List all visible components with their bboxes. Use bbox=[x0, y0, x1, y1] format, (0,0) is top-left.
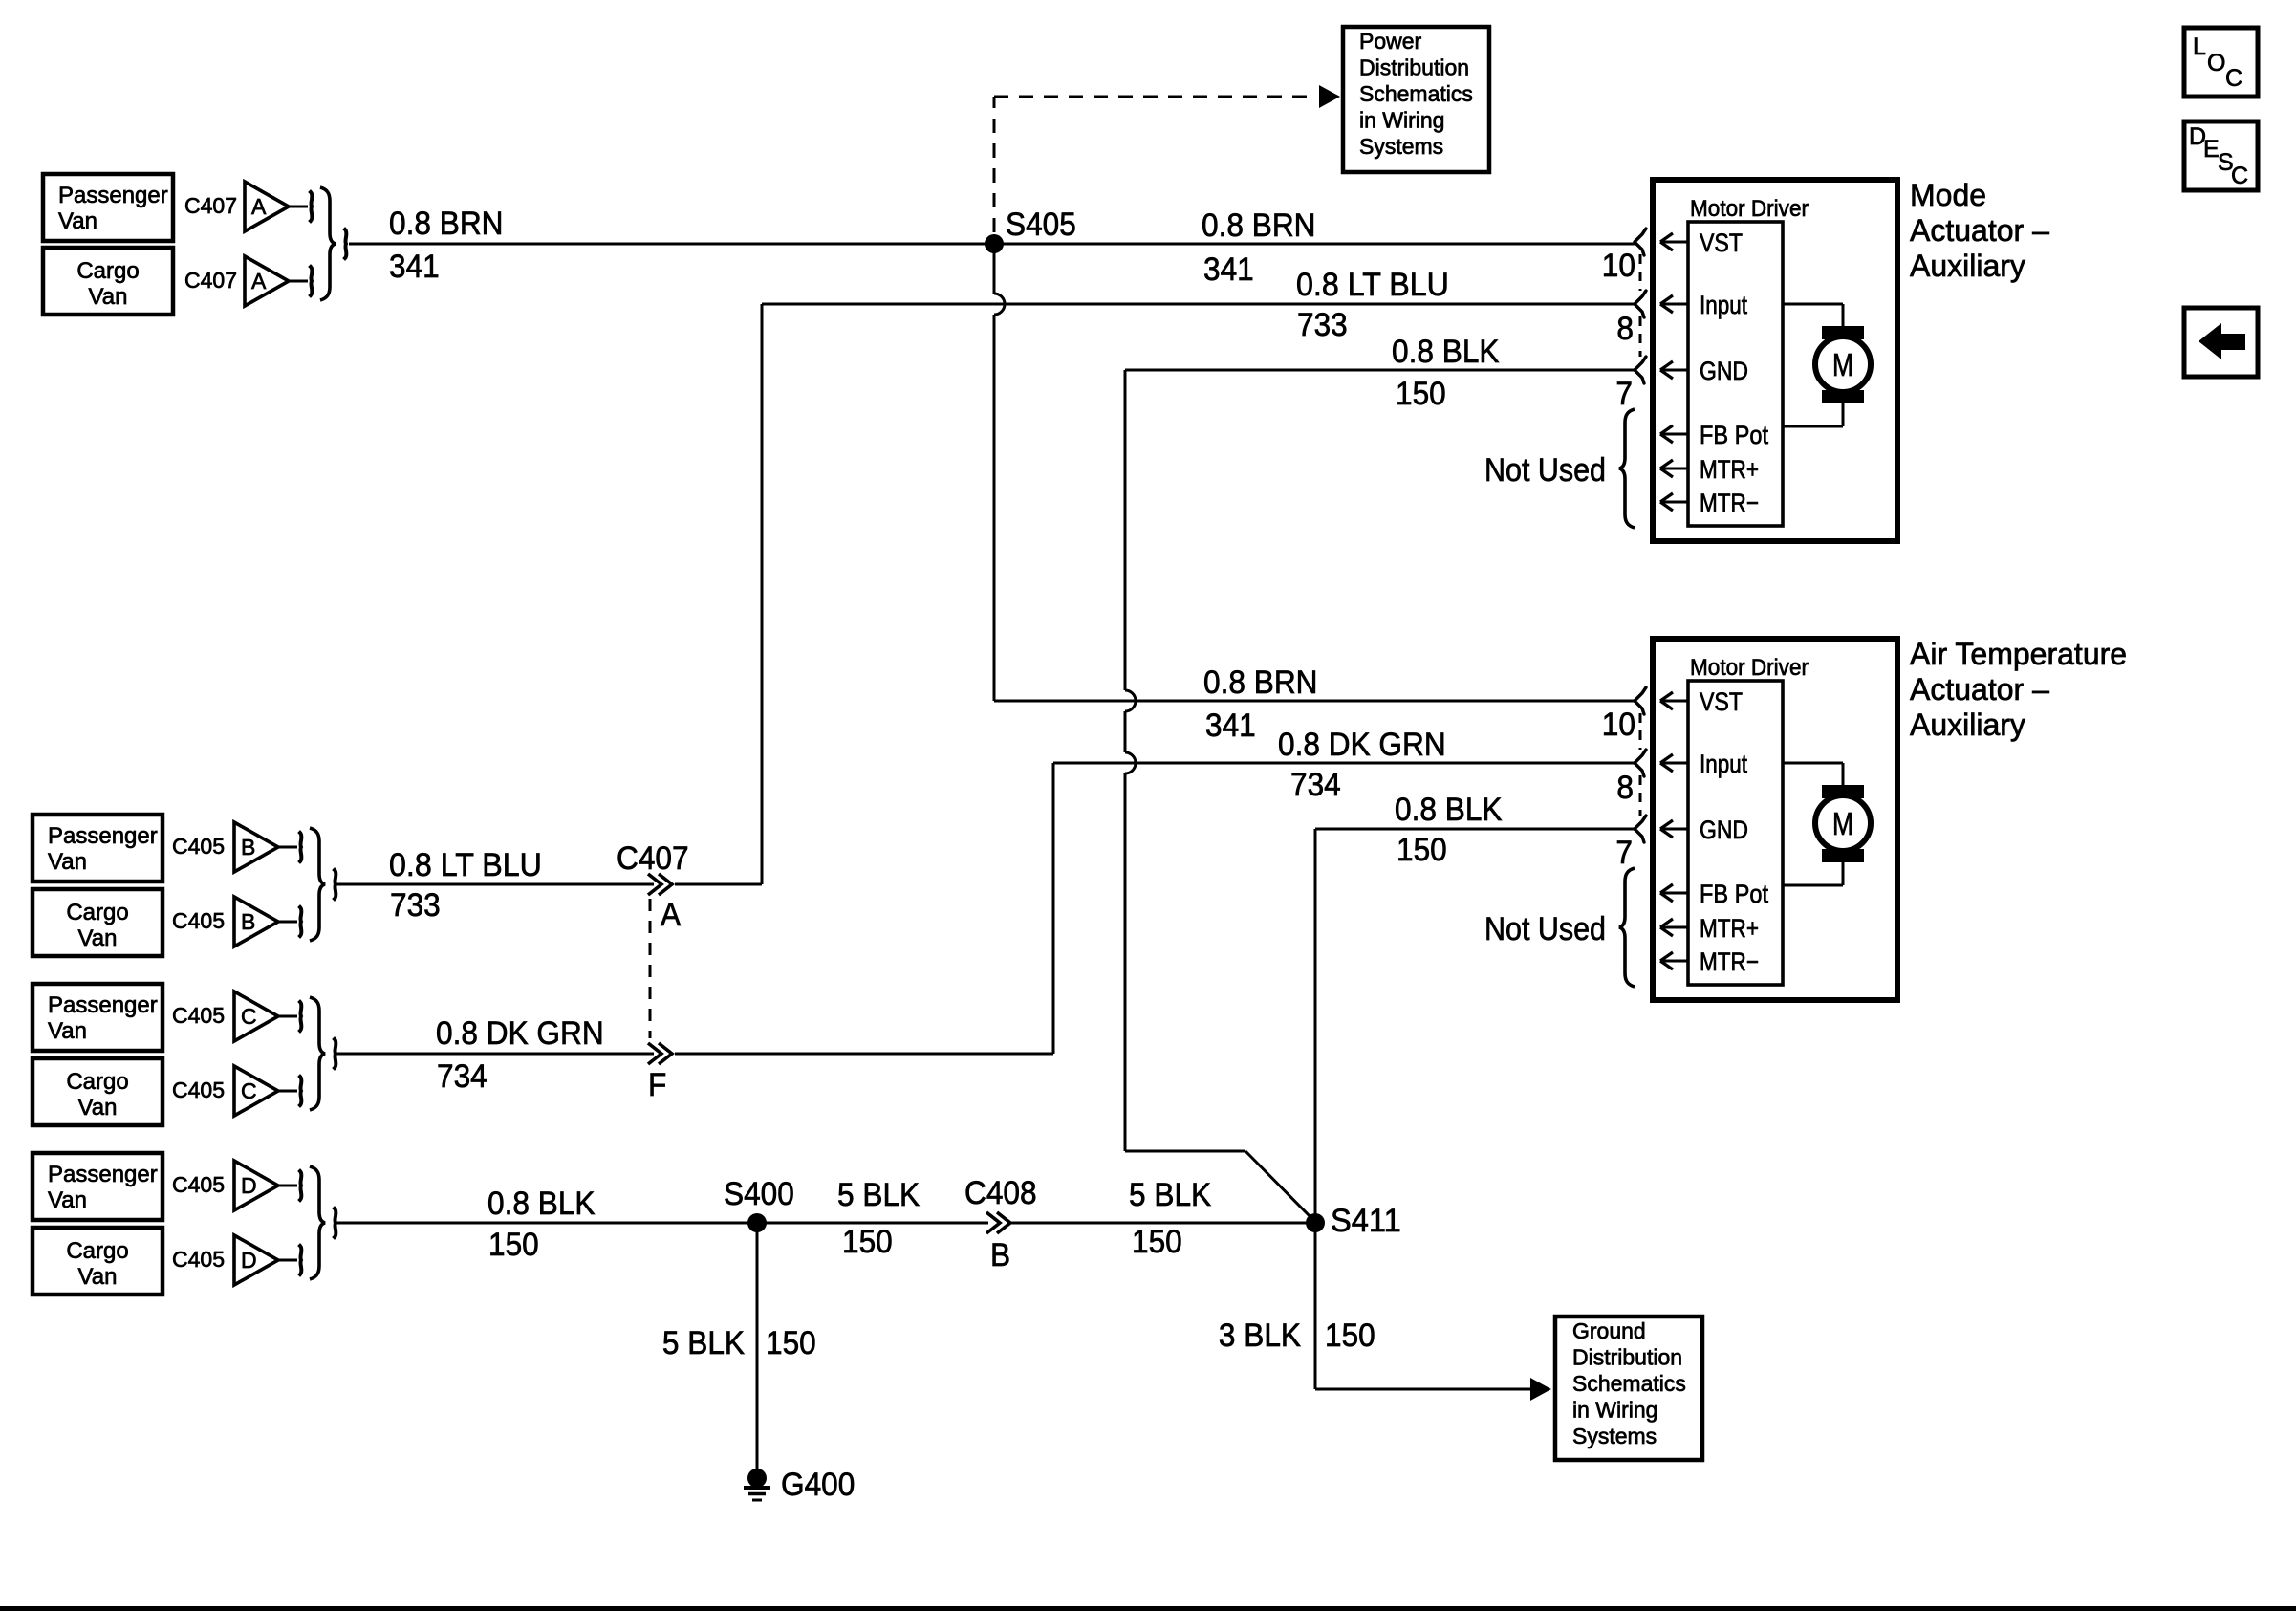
svg-text:341: 341 bbox=[1203, 251, 1254, 288]
svg-text:GND: GND bbox=[1700, 357, 1748, 385]
svg-text:D: D bbox=[241, 1173, 257, 1198]
pin FB Pot bbox=[1660, 892, 1688, 895]
page footer bar bbox=[0, 1606, 2296, 1611]
box Passenger Van (C405 B) bbox=[32, 815, 162, 882]
connector triangle D (Passenger) bbox=[234, 1161, 278, 1210]
brace merging group A bbox=[320, 187, 336, 300]
svg-text:Power: Power bbox=[1359, 29, 1422, 54]
svg-text:L: L bbox=[2193, 33, 2206, 60]
dashed connector line bbox=[1639, 713, 1642, 750]
dashed connector link C407 A-F bbox=[649, 899, 652, 1038]
svg-text:MTR+: MTR+ bbox=[1700, 914, 1759, 943]
svg-text:Not Used: Not Used bbox=[1484, 452, 1606, 489]
svg-text:Actuator –: Actuator – bbox=[1910, 213, 2049, 248]
svg-text:C407: C407 bbox=[617, 840, 689, 877]
splice S400 bbox=[747, 1213, 767, 1232]
wire triangle output 2 bbox=[278, 1259, 297, 1262]
pin VST bbox=[1660, 241, 1688, 244]
svg-text:Van: Van bbox=[89, 284, 128, 310]
nav box LOC bbox=[2184, 28, 2258, 97]
svg-text:C: C bbox=[241, 1004, 257, 1029]
svg-text:D: D bbox=[241, 1248, 257, 1273]
pin VST bbox=[1660, 700, 1688, 703]
wire 0.8 BLK 150 to Air Temp GND bbox=[1315, 828, 1635, 831]
svg-text:5 BLK: 5 BLK bbox=[662, 1325, 745, 1361]
inline connector C407 cavity F bbox=[648, 1043, 661, 1064]
pin FB Pot bbox=[1660, 433, 1688, 436]
connector triangle C (Cargo) bbox=[234, 1066, 278, 1116]
wire 0.8 BLK 150 to Mode GND bbox=[1125, 369, 1635, 372]
svg-text:10: 10 bbox=[1602, 707, 1635, 743]
splice S411 bbox=[1306, 1213, 1325, 1232]
wire inner box to motor top bbox=[1783, 762, 1843, 765]
pin MTR- bbox=[1660, 501, 1688, 504]
ground G400 bbox=[747, 1469, 767, 1488]
svg-text:Passenger: Passenger bbox=[48, 823, 158, 849]
svg-text:in Wiring: in Wiring bbox=[1359, 108, 1444, 133]
svg-text:Ground: Ground bbox=[1572, 1318, 1646, 1343]
svg-text:341: 341 bbox=[1205, 708, 1256, 744]
svg-text:10: 10 bbox=[1602, 248, 1635, 284]
box Cargo Van (C405 D) bbox=[32, 1228, 162, 1295]
motor M symbol bbox=[1822, 785, 1864, 798]
svg-text:150: 150 bbox=[766, 1325, 816, 1361]
svg-text:C405: C405 bbox=[172, 834, 225, 859]
svg-text:A: A bbox=[251, 269, 267, 294]
svg-text:B: B bbox=[990, 1237, 1010, 1274]
dashed reference line from S405 to Power Distribution bbox=[993, 97, 996, 232]
svg-text:C405: C405 bbox=[172, 1247, 225, 1272]
svg-text:MTR+: MTR+ bbox=[1700, 455, 1759, 484]
svg-text:B: B bbox=[241, 909, 255, 934]
svg-text:0.8 BRN: 0.8 BRN bbox=[389, 206, 504, 242]
component outer box bbox=[1653, 180, 1897, 541]
svg-text:7: 7 bbox=[1615, 376, 1633, 412]
wire 0.8 BRN 341 left segment bbox=[349, 243, 1635, 246]
svg-text:Input: Input bbox=[1700, 750, 1747, 778]
wire riser DK GRN up bbox=[1052, 763, 1055, 1054]
svg-text:Cargo: Cargo bbox=[66, 1069, 128, 1095]
wire DK GRN from C407-F to riser bbox=[675, 1053, 1053, 1056]
connector at Input bbox=[1635, 750, 1646, 776]
box Cargo Van (C405 B) bbox=[32, 889, 162, 956]
svg-text:Systems: Systems bbox=[1572, 1424, 1657, 1448]
brace merging group C bbox=[310, 997, 325, 1110]
svg-text:Mode: Mode bbox=[1910, 178, 1986, 212]
connector triangle C (Passenger) bbox=[234, 991, 278, 1041]
svg-text:Passenger: Passenger bbox=[58, 183, 168, 208]
svg-text:Van: Van bbox=[48, 849, 87, 875]
wire vertical from Air Temp GND down to S411 bbox=[1314, 829, 1317, 1223]
svg-text:0.8 BLK: 0.8 BLK bbox=[487, 1186, 596, 1222]
wire 5 BLK 150 S400 to C408 bbox=[757, 1222, 988, 1225]
svg-text:Distribution: Distribution bbox=[1572, 1345, 1682, 1370]
wire triangle output 1 bbox=[278, 1185, 297, 1187]
nav box back-arrow bbox=[2184, 308, 2258, 377]
dashed connector line bbox=[1639, 254, 1642, 291]
pin MTR- bbox=[1660, 960, 1688, 963]
motor driver inner box bbox=[1688, 681, 1783, 985]
svg-text:3 BLK: 3 BLK bbox=[1219, 1317, 1301, 1354]
svg-text:Motor Driver: Motor Driver bbox=[1690, 196, 1809, 222]
svg-text:0.8 BRN: 0.8 BRN bbox=[1202, 207, 1316, 244]
box Ground Distribution Schematics in Wiring Systems bbox=[1555, 1317, 1702, 1460]
svg-text:Passenger: Passenger bbox=[48, 1162, 158, 1187]
svg-text:Van: Van bbox=[48, 1018, 87, 1044]
brace Not Used bbox=[1619, 409, 1635, 528]
wire 0.8 LT BLU 733 to Mode Input bbox=[762, 303, 1635, 306]
wire 5 BLK 150 C408 to S411 bbox=[1011, 1222, 1315, 1225]
svg-text:C408: C408 bbox=[964, 1175, 1037, 1211]
wire triangle output 1 bbox=[289, 206, 308, 208]
wire riser LT BLU up bbox=[761, 304, 764, 884]
svg-text:8: 8 bbox=[1616, 311, 1634, 347]
svg-text:S405: S405 bbox=[1006, 207, 1076, 243]
wire 3 BLK 150 from S411 bbox=[1314, 1223, 1317, 1389]
svg-text:8: 8 bbox=[1616, 770, 1634, 806]
svg-text:FB Pot: FB Pot bbox=[1700, 421, 1768, 449]
connector at VST bbox=[1635, 229, 1646, 255]
svg-text:Cargo: Cargo bbox=[76, 258, 139, 284]
svg-text:M: M bbox=[1832, 347, 1853, 382]
svg-text:Van: Van bbox=[78, 1264, 118, 1290]
pin MTR+ bbox=[1660, 926, 1688, 929]
svg-text:in Wiring: in Wiring bbox=[1572, 1398, 1657, 1423]
svg-text:5 BLK: 5 BLK bbox=[837, 1177, 920, 1213]
svg-text:C405: C405 bbox=[172, 1078, 225, 1102]
component outer box bbox=[1653, 639, 1897, 1000]
svg-text:733: 733 bbox=[390, 887, 441, 924]
svg-text:C405: C405 bbox=[172, 908, 225, 933]
svg-text:0.8 DK GRN: 0.8 DK GRN bbox=[436, 1015, 604, 1052]
svg-text:FB Pot: FB Pot bbox=[1700, 880, 1768, 908]
wire corner to diagonal bbox=[1125, 1150, 1245, 1153]
wire inner box to motor top bbox=[1783, 303, 1843, 306]
svg-text:Air Temperature: Air Temperature bbox=[1910, 637, 2127, 671]
svg-text:Input: Input bbox=[1700, 291, 1747, 319]
svg-text:0.8 BLK: 0.8 BLK bbox=[1395, 792, 1503, 828]
svg-text:Motor Driver: Motor Driver bbox=[1690, 655, 1809, 681]
pin Input bbox=[1660, 303, 1688, 306]
svg-text:Actuator –: Actuator – bbox=[1910, 672, 2049, 707]
wire 0.8 BLK 150 left segment bbox=[336, 1222, 757, 1225]
svg-text:Van: Van bbox=[58, 208, 97, 234]
svg-text:150: 150 bbox=[1325, 1317, 1375, 1354]
svg-text:Systems: Systems bbox=[1359, 134, 1443, 159]
svg-text:Schematics: Schematics bbox=[1572, 1371, 1686, 1396]
svg-text:C405: C405 bbox=[172, 1172, 225, 1197]
svg-text:MTR−: MTR− bbox=[1700, 489, 1759, 517]
svg-text:341: 341 bbox=[389, 249, 440, 285]
svg-text:Auxiliary: Auxiliary bbox=[1910, 249, 2025, 283]
nav box DESC bbox=[2184, 121, 2258, 190]
svg-text:C407: C407 bbox=[184, 193, 237, 218]
svg-text:7: 7 bbox=[1615, 835, 1633, 871]
svg-text:VST: VST bbox=[1700, 687, 1743, 716]
wire motor bottom to inner box bbox=[1842, 403, 1845, 426]
wire 0.8 DK GRN 734 to Air Temp Input bbox=[1053, 762, 1635, 765]
wire from S405 down with hop over LT BLU bbox=[993, 244, 996, 294]
svg-text:733: 733 bbox=[1297, 307, 1348, 343]
motor driver inner box bbox=[1688, 222, 1783, 526]
wire 5 BLK 150 S400 to G400 bbox=[756, 1223, 759, 1469]
svg-text:M: M bbox=[1832, 806, 1853, 841]
svg-text:Not Used: Not Used bbox=[1484, 911, 1606, 947]
svg-text:VST: VST bbox=[1700, 229, 1743, 257]
svg-text:0.8 DK GRN: 0.8 DK GRN bbox=[1278, 727, 1446, 763]
svg-text:Van: Van bbox=[78, 925, 118, 951]
svg-text:0.8 BRN: 0.8 BRN bbox=[1203, 664, 1318, 701]
svg-text:150: 150 bbox=[1132, 1224, 1182, 1260]
svg-text:S400: S400 bbox=[724, 1176, 794, 1212]
wire 0.8 DK GRN 734 left segment bbox=[336, 1053, 654, 1056]
svg-text:5 BLK: 5 BLK bbox=[1129, 1177, 1211, 1213]
svg-text:150: 150 bbox=[1396, 376, 1446, 412]
svg-text:0.8 BLK: 0.8 BLK bbox=[1392, 334, 1500, 370]
connector triangle D (Cargo) bbox=[234, 1235, 278, 1285]
svg-text:A: A bbox=[661, 897, 681, 933]
svg-text:C405: C405 bbox=[172, 1003, 225, 1028]
wire 0.8 BRN 341 to Air Temp VST bbox=[994, 700, 1635, 703]
connector triangle B (Cargo) bbox=[234, 897, 278, 947]
wire 0.8 LT BLU 733 left segment bbox=[336, 883, 654, 886]
svg-text:Cargo: Cargo bbox=[66, 1238, 128, 1264]
brace merging group D bbox=[310, 1166, 325, 1279]
svg-text:O: O bbox=[2207, 50, 2225, 76]
svg-text:Passenger: Passenger bbox=[48, 992, 158, 1018]
svg-text:734: 734 bbox=[1290, 767, 1341, 803]
wire LT BLU from C407-A to riser bbox=[675, 883, 762, 886]
svg-text:Van: Van bbox=[78, 1095, 118, 1121]
svg-text:734: 734 bbox=[437, 1058, 487, 1095]
svg-text:MTR−: MTR− bbox=[1700, 947, 1759, 976]
box Passenger Van (C407 A) bbox=[43, 174, 173, 241]
pin GND bbox=[1660, 828, 1688, 831]
svg-text:150: 150 bbox=[1397, 832, 1447, 868]
wire triangle output 2 bbox=[289, 280, 308, 283]
connector triangle A (Passenger) bbox=[245, 182, 289, 231]
svg-text:150: 150 bbox=[488, 1227, 539, 1263]
svg-text:150: 150 bbox=[842, 1224, 893, 1260]
splice S405 bbox=[985, 234, 1004, 253]
svg-text:G400: G400 bbox=[781, 1467, 855, 1503]
wire motor bottom to inner box bbox=[1842, 862, 1845, 885]
wire triangle output 2 bbox=[278, 1090, 297, 1093]
wire triangle output 2 bbox=[278, 921, 297, 924]
svg-text:F: F bbox=[648, 1067, 666, 1103]
svg-text:Van: Van bbox=[48, 1187, 87, 1213]
connector at GND bbox=[1635, 816, 1646, 842]
svg-text:A: A bbox=[251, 194, 267, 219]
svg-text:Schematics: Schematics bbox=[1359, 81, 1473, 106]
box Cargo Van (C405 C) bbox=[32, 1058, 162, 1125]
brace merging group B bbox=[310, 828, 325, 941]
box Power Distribution Schematics in Wiring Systems bbox=[1343, 27, 1489, 172]
connector at Input bbox=[1635, 291, 1646, 317]
motor M symbol bbox=[1822, 326, 1864, 339]
svg-text:Cargo: Cargo bbox=[66, 900, 128, 925]
box Passenger Van (C405 D) bbox=[32, 1153, 162, 1220]
brace Not Used bbox=[1619, 868, 1635, 987]
wire triangle output 1 bbox=[278, 846, 297, 849]
svg-text:GND: GND bbox=[1700, 816, 1748, 844]
svg-text:Auxiliary: Auxiliary bbox=[1910, 708, 2025, 742]
connector triangle A (Cargo) bbox=[245, 256, 289, 306]
box Cargo Van (C407 A) bbox=[43, 248, 173, 315]
wire triangle output 1 bbox=[278, 1015, 297, 1018]
svg-text:0.8 LT BLU: 0.8 LT BLU bbox=[389, 847, 542, 883]
connector at GND bbox=[1635, 357, 1646, 383]
svg-text:S411: S411 bbox=[1331, 1203, 1401, 1239]
svg-text:C: C bbox=[2231, 163, 2248, 189]
svg-text:C: C bbox=[241, 1078, 257, 1103]
svg-text:C: C bbox=[2225, 65, 2242, 92]
svg-text:C407: C407 bbox=[184, 268, 237, 293]
pin MTR+ bbox=[1660, 468, 1688, 470]
svg-text:B: B bbox=[241, 835, 255, 860]
connector triangle B (Passenger) bbox=[234, 822, 278, 872]
connector at VST bbox=[1635, 687, 1646, 714]
pin GND bbox=[1660, 369, 1688, 372]
pin Input bbox=[1660, 762, 1688, 765]
wire diagonal into S411 bbox=[1245, 1151, 1315, 1222]
wire vertical ground run with hops bbox=[1124, 370, 1127, 690]
box Passenger Van (C405 C) bbox=[32, 984, 162, 1051]
svg-text:Distribution: Distribution bbox=[1359, 55, 1469, 80]
svg-text:0.8 LT BLU: 0.8 LT BLU bbox=[1296, 267, 1449, 303]
